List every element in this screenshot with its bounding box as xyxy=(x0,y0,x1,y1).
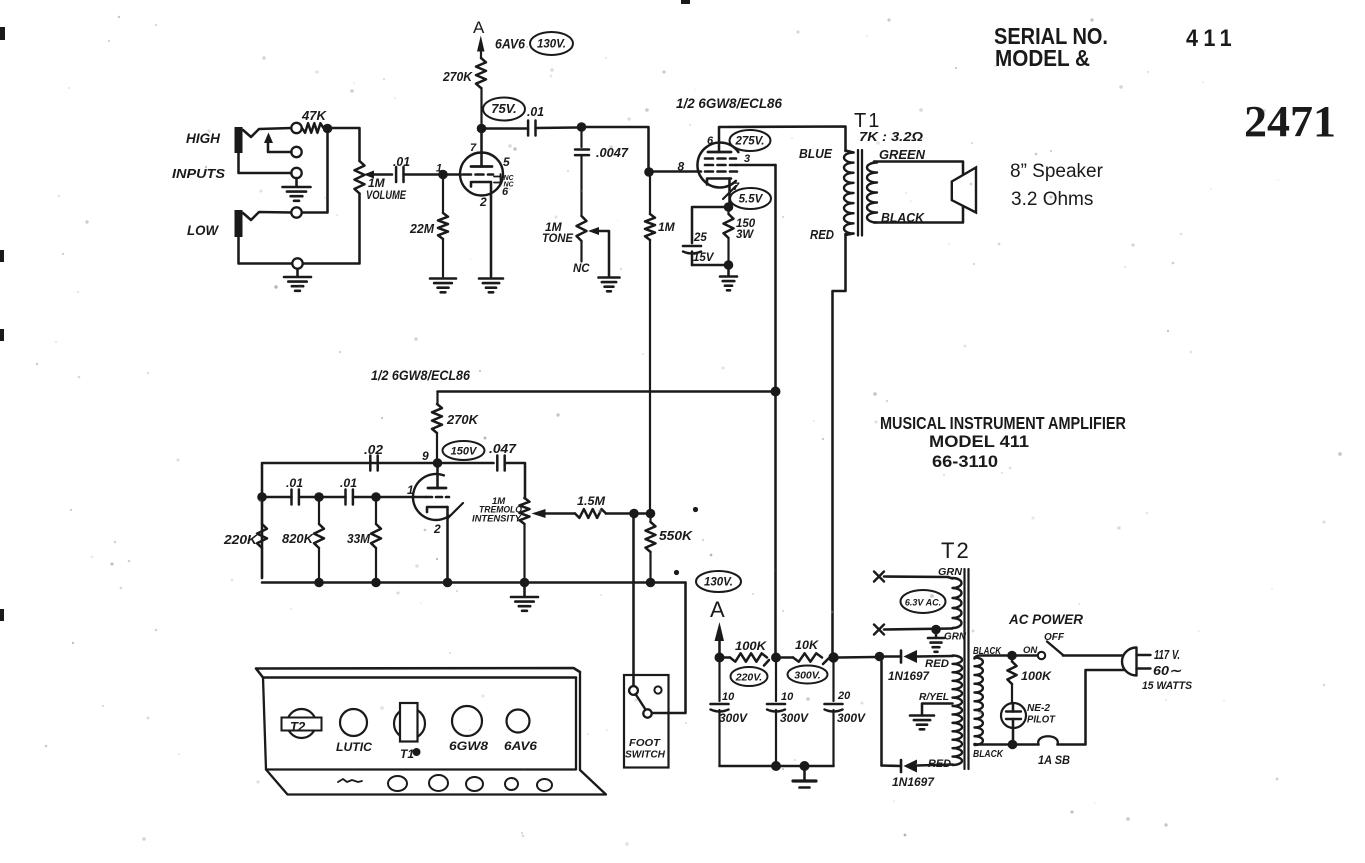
svg-text:BLACK: BLACK xyxy=(973,645,1002,657)
node rail 550K xyxy=(646,578,656,588)
wire b-grid xyxy=(353,496,372,499)
potentiometer 1M TREMOLO INTENSITY xyxy=(523,497,526,500)
wire B+ to rectifier xyxy=(839,656,876,659)
V1 cathode xyxy=(471,182,491,187)
svg-text:BLUE: BLUE xyxy=(799,147,833,161)
svg-text:300V: 300V xyxy=(837,713,866,725)
V3 grid dashes xyxy=(426,496,432,499)
svg-text:FOOT: FOOT xyxy=(629,738,661,749)
volume wiper arrow xyxy=(364,171,375,179)
node PS rail b xyxy=(771,761,781,771)
svg-text:6: 6 xyxy=(707,135,714,147)
ground (PS rail) xyxy=(803,770,806,780)
svg-text:10K: 10K xyxy=(795,638,819,652)
pin 6 NC stub xyxy=(494,182,501,184)
potentiometer 1M VOLUME xyxy=(355,161,365,194)
chassis face xyxy=(263,672,580,770)
svg-text:10: 10 xyxy=(722,691,735,703)
potentiometer 1M TONE xyxy=(577,216,587,241)
X mark bottom xyxy=(874,625,884,635)
svg-text:GRN: GRN xyxy=(938,566,962,578)
svg-text:SWITCH: SWITCH xyxy=(625,750,666,761)
svg-text:.047: .047 xyxy=(489,442,517,456)
svg-text:A: A xyxy=(473,18,485,37)
svg-text:3.2 Ohms: 3.2 Ohms xyxy=(1011,189,1093,210)
svg-text:MODEL 411: MODEL 411 xyxy=(929,432,1029,451)
resistor 220K xyxy=(261,497,263,524)
ground (22M) xyxy=(430,277,456,280)
wire junction-junction xyxy=(638,512,646,515)
X mark top xyxy=(874,572,884,582)
wire footswitch return xyxy=(652,583,686,714)
wire .02 rail xyxy=(262,463,433,578)
T2 core xyxy=(963,569,965,769)
svg-text:5.5V: 5.5V xyxy=(739,194,764,206)
chassis socket LUTIC xyxy=(340,709,367,736)
svg-text:5: 5 xyxy=(503,155,510,169)
input jack J1 HIGH (body) xyxy=(235,127,243,153)
node: 550K top xyxy=(646,509,656,519)
V3 plate xyxy=(428,487,446,490)
tone pot NC lead xyxy=(580,241,582,262)
svg-text:300V: 300V xyxy=(780,713,809,725)
svg-text:ON: ON xyxy=(1023,645,1038,656)
T2 HV winding xyxy=(953,656,963,766)
V1 plate xyxy=(471,165,492,168)
arrow node A (supply) xyxy=(715,622,725,641)
node: B+ 300V xyxy=(828,652,838,662)
svg-text:6.3V AC.: 6.3V AC. xyxy=(905,598,941,608)
resistor 100K (supply) xyxy=(724,656,730,659)
node: RC c xyxy=(371,492,381,502)
diode CR1 1N1697 xyxy=(904,650,918,663)
svg-text:AC POWER: AC POWER xyxy=(1008,612,1083,627)
ground (tremolo rail) xyxy=(523,587,526,596)
transformer T1 secondary xyxy=(867,163,877,223)
wire primary top xyxy=(975,656,1008,659)
capacitor .01 b xyxy=(344,490,347,505)
resistor 270K (V1 plate load) xyxy=(480,88,482,124)
svg-text:T1: T1 xyxy=(854,110,881,132)
oval 130V (V1 plate supply) xyxy=(530,32,573,55)
svg-text:LUTIC: LUTIC xyxy=(336,742,373,754)
wire osc B+ rail xyxy=(438,390,772,393)
oval 75V (V1 plate) xyxy=(483,98,525,121)
V3 arc hook xyxy=(448,503,463,518)
transformer T1 primary xyxy=(844,153,854,234)
oval 130V (supply) xyxy=(696,571,741,592)
svg-text:7: 7 xyxy=(470,142,477,154)
svg-text:VOLUME: VOLUME xyxy=(366,188,407,202)
resistor 47K xyxy=(302,123,324,133)
T1 primary bottom (RED) to B+ xyxy=(846,234,854,236)
speaker cone xyxy=(952,168,976,213)
plug prong 1 xyxy=(1137,654,1151,656)
svg-text:.01: .01 xyxy=(527,105,544,119)
resistor 10K (supply) xyxy=(781,656,793,659)
wire V2 screen to B+ line xyxy=(736,164,776,167)
ground (heater CT) xyxy=(935,633,938,637)
fuse 1A SB xyxy=(1038,736,1058,744)
footswitch fixed contact xyxy=(629,686,638,695)
capacitor .0047 xyxy=(580,131,582,147)
svg-text:GRN: GRN xyxy=(944,631,966,643)
chassis socket 6GW8 xyxy=(452,706,482,736)
wire rectifier joint xyxy=(880,661,883,766)
tube V1 6AV6 envelope xyxy=(460,153,503,196)
svg-text:T1: T1 xyxy=(400,747,414,761)
ground (input LOW sleeve) xyxy=(284,276,311,279)
svg-text:411: 411 xyxy=(1186,25,1237,52)
svg-text:3: 3 xyxy=(744,153,750,165)
speck near 550K xyxy=(693,507,698,512)
capacitor 10/300V a xyxy=(718,662,720,701)
resistor 33M xyxy=(375,502,377,525)
svg-text:1N1697: 1N1697 xyxy=(888,671,930,683)
svg-text:INTENSITY: INTENSITY xyxy=(472,514,523,525)
scan marks left edge xyxy=(0,27,5,40)
svg-text:33M: 33M xyxy=(347,532,371,546)
svg-text:100K: 100K xyxy=(1021,669,1052,683)
svg-text:1M: 1M xyxy=(658,220,676,234)
svg-text:75V.: 75V. xyxy=(491,101,517,116)
footswitch arm xyxy=(636,694,646,710)
node: B+ 130V xyxy=(715,653,725,663)
wire 47K-node to volume pot top xyxy=(331,128,360,161)
node: tone junction xyxy=(577,122,587,132)
capacitor .01 (input coupling) xyxy=(395,167,398,182)
node rail c xyxy=(371,578,381,588)
capacitor .01 a xyxy=(267,496,292,499)
svg-text:LOW: LOW xyxy=(187,223,219,238)
jack J1 shorting arrow xyxy=(264,133,273,144)
jack J2 tip contact xyxy=(291,207,301,217)
wire junction down to footswitch xyxy=(632,518,635,686)
chassis scribble xyxy=(338,779,362,782)
arrow to node A (top) xyxy=(477,36,485,52)
capacitor 25/15V (cathode bypass) xyxy=(692,207,724,243)
wire cap to grid node xyxy=(404,173,439,176)
svg-text:.01: .01 xyxy=(393,155,410,169)
svg-text:1: 1 xyxy=(407,483,414,497)
svg-text:270K: 270K xyxy=(442,69,473,84)
chassis T1 transformer xyxy=(394,708,425,739)
svg-text:2: 2 xyxy=(433,522,441,536)
capacitor 10/300V b xyxy=(775,663,777,702)
svg-text:T2: T2 xyxy=(290,719,306,734)
svg-text:MODEL &: MODEL & xyxy=(995,45,1090,71)
capacitor .02 xyxy=(369,456,372,471)
tube V2 pentode envelope xyxy=(697,143,738,188)
svg-text:6AV6: 6AV6 xyxy=(495,37,525,52)
svg-text:550K: 550K xyxy=(659,528,694,543)
footswitch box xyxy=(624,675,669,768)
svg-text:117 V.: 117 V. xyxy=(1154,648,1180,662)
pilot lamp NE-2 xyxy=(1001,703,1026,728)
svg-text:1/2 6GW8/ECL86: 1/2 6GW8/ECL86 xyxy=(371,368,470,383)
svg-text:25: 25 xyxy=(693,232,707,244)
chassis socket 6AV6 xyxy=(507,710,530,733)
wire heater bottom xyxy=(884,629,953,630)
wire plug to fuse xyxy=(1058,670,1125,745)
ground (V1 cathode) xyxy=(479,277,503,280)
V2 grid3 dashes xyxy=(705,157,713,160)
resistor 550K xyxy=(649,518,651,522)
oval 150V (osc plate) xyxy=(443,441,485,460)
T2 primary winding xyxy=(975,657,983,745)
node rail pot xyxy=(520,578,530,588)
svg-text:15V: 15V xyxy=(693,252,715,264)
scan speckle xyxy=(866,35,868,37)
svg-text:22M: 22M xyxy=(409,221,435,236)
resistor 270K (osc plate load) xyxy=(436,392,438,405)
node: B+ 220V xyxy=(771,653,781,663)
svg-text:8” Speaker: 8” Speaker xyxy=(1010,161,1104,182)
wire to switch xyxy=(1017,654,1038,657)
tremolo wiper arrow xyxy=(532,509,546,518)
tube V3 osc envelope xyxy=(413,474,449,520)
svg-text:OFF: OFF xyxy=(1044,632,1065,643)
svg-text:220K: 220K xyxy=(223,533,258,547)
wire V2 plate to T1 xyxy=(719,127,846,152)
svg-text:T2: T2 xyxy=(941,538,971,563)
chassis T2 transformer xyxy=(287,709,316,738)
svg-text:A: A xyxy=(710,597,725,622)
svg-text:47K: 47K xyxy=(301,108,328,123)
svg-text:TONE: TONE xyxy=(542,231,574,245)
svg-text:8: 8 xyxy=(678,160,685,174)
svg-text:BLACK: BLACK xyxy=(973,748,1004,760)
node PS rail gnd xyxy=(800,761,810,771)
svg-text:.01: .01 xyxy=(340,476,357,490)
ground (V2 cathode) xyxy=(727,269,730,276)
svg-text:RED: RED xyxy=(925,658,949,670)
AC plug xyxy=(1122,648,1137,676)
svg-text:60∼: 60∼ xyxy=(1153,663,1182,678)
resistor 820K xyxy=(318,502,320,525)
switch contact (ON) xyxy=(1038,652,1045,659)
plug prong 2 xyxy=(1137,667,1151,669)
node: V1 plate xyxy=(477,124,487,134)
svg-text:GREEN: GREEN xyxy=(879,148,926,162)
T2 HV center tap xyxy=(922,704,953,715)
svg-text:RED: RED xyxy=(810,228,834,242)
svg-text:300V: 300V xyxy=(719,713,748,725)
T2 heater winding xyxy=(953,578,962,628)
node: footswitch junction xyxy=(629,509,639,519)
oval 275V (V2 plate) xyxy=(730,130,771,151)
svg-text:15 WATTS: 15 WATTS xyxy=(1142,680,1193,692)
pin 5 NC stub xyxy=(494,176,501,178)
chassis flange holes xyxy=(388,776,407,791)
ground (HV center tap) xyxy=(910,714,934,717)
node: primary bottom xyxy=(1008,740,1018,750)
svg-text:1/2 6GW8/ECL86: 1/2 6GW8/ECL86 xyxy=(676,96,782,111)
resistor 1M (V2 grid leak upper) xyxy=(649,177,651,215)
wire switch to plug xyxy=(1063,654,1124,657)
svg-text:RED: RED xyxy=(928,758,951,770)
wire node down to LOW tip xyxy=(302,132,328,213)
capacitor .01 (coupling to V2) xyxy=(527,121,530,136)
V2 plate xyxy=(708,151,731,154)
jack J1 ring/shorting contact xyxy=(291,147,301,157)
wire top to grid corner xyxy=(586,127,649,167)
jack J2 sleeve contact xyxy=(292,258,302,268)
node: primary top / pilot xyxy=(1007,651,1017,661)
wire PS ground rail xyxy=(720,765,834,768)
node: 47K junction xyxy=(323,124,333,134)
wire T1 secondary to speaker xyxy=(874,162,963,223)
wire screen line down xyxy=(774,396,777,653)
V2 arc hook xyxy=(723,186,736,199)
svg-text:MUSICAL INSTRUMENT AMPLIFIER: MUSICAL INSTRUMENT AMPLIFIER xyxy=(880,413,1126,433)
svg-text:2: 2 xyxy=(479,195,487,209)
node 9: osc plate xyxy=(433,458,443,468)
svg-text:NC: NC xyxy=(504,182,515,189)
svg-text:2471: 2471 xyxy=(1244,97,1336,146)
svg-text:270K: 270K xyxy=(446,412,480,427)
wire 1.5M to junction xyxy=(606,512,630,515)
diode CR2 1N1697 xyxy=(904,760,918,773)
node: rectifier output xyxy=(875,652,885,662)
chassis flange xyxy=(266,770,606,795)
svg-text:1: 1 xyxy=(436,163,442,175)
svg-text:130V.: 130V. xyxy=(537,39,566,51)
svg-text:PILOT: PILOT xyxy=(1027,715,1056,726)
svg-text:220V.: 220V. xyxy=(735,672,763,684)
tone wiper arrow xyxy=(588,227,599,235)
svg-text:7K : 3.2Ω: 7K : 3.2Ω xyxy=(859,130,923,144)
svg-text:20: 20 xyxy=(837,690,851,702)
chassis top edge xyxy=(256,668,580,678)
wire primary bottom xyxy=(975,743,1009,746)
svg-text:66-3110: 66-3110 xyxy=(932,452,998,471)
svg-text:.01: .01 xyxy=(286,476,303,490)
wire heater top xyxy=(884,575,948,578)
ground (input HIGH sleeve) xyxy=(283,186,311,189)
oval 5.5V (V2 cathode) xyxy=(730,188,771,209)
jack J1 tip contact xyxy=(291,123,301,133)
oval 300V xyxy=(788,666,828,684)
node: cathode bottom xyxy=(724,260,734,270)
resistor 1.5M xyxy=(575,509,606,518)
wire HV top to diode xyxy=(917,655,953,658)
wire to V2 grid xyxy=(654,170,702,173)
svg-text:9: 9 xyxy=(422,449,429,463)
svg-text:820K: 820K xyxy=(282,532,314,546)
wire volume pot bottom to LOW sleeve xyxy=(303,194,360,264)
switch arm (OFF position) xyxy=(1047,642,1063,656)
svg-text:150V: 150V xyxy=(451,446,478,458)
svg-text:INPUTS: INPUTS xyxy=(172,167,226,181)
node: heater CT xyxy=(931,625,941,635)
svg-text:NE-2: NE-2 xyxy=(1027,703,1050,714)
node: screen line at osc B+ rail xyxy=(771,387,781,397)
jack J1 sleeve contact grounded xyxy=(291,168,301,178)
svg-text:1A SB: 1A SB xyxy=(1038,755,1070,767)
node: V1 grid xyxy=(438,170,448,180)
input jack J2 LOW (body) xyxy=(235,210,243,237)
wire B+ node to rectifier xyxy=(874,656,877,659)
node: RC b xyxy=(314,492,324,502)
node: V2 cathode junction xyxy=(724,202,734,212)
resistor 150 3W xyxy=(727,211,729,214)
resistor 100K (pilot) xyxy=(1011,660,1013,662)
svg-text:130V.: 130V. xyxy=(704,577,733,589)
wire c to osc grid xyxy=(381,496,427,499)
capacitor 20/300V c xyxy=(832,663,834,702)
svg-text:300V.: 300V. xyxy=(794,670,821,682)
node rail b xyxy=(314,578,324,588)
svg-text:6AV6: 6AV6 xyxy=(504,741,538,753)
wire a-b xyxy=(299,496,315,499)
footswitch moving contact xyxy=(643,709,651,717)
V2 cathode xyxy=(707,179,731,185)
svg-text:NC: NC xyxy=(573,263,590,275)
resistor 22M xyxy=(442,179,444,213)
node rail cathode xyxy=(443,578,453,588)
svg-text:R/YEL: R/YEL xyxy=(919,692,949,703)
svg-text:10: 10 xyxy=(781,691,794,703)
capacitor .047 xyxy=(442,462,494,465)
node: V2 grid (pin8) xyxy=(644,167,654,177)
ground (tone wiper) xyxy=(599,276,620,279)
V2 grid1 dashes xyxy=(705,170,713,173)
svg-text:1N1697: 1N1697 xyxy=(892,777,935,789)
svg-text:3W: 3W xyxy=(736,229,754,241)
svg-text:275V.: 275V. xyxy=(735,136,765,148)
V2 grid2 dashes xyxy=(705,164,713,167)
oval 6.3V AC xyxy=(901,590,946,613)
svg-text:1.5M: 1.5M xyxy=(577,494,606,508)
footswitch spare contact xyxy=(654,686,661,693)
svg-text:.02: .02 xyxy=(364,443,383,457)
svg-text:6GW8: 6GW8 xyxy=(449,741,489,753)
oval 220V xyxy=(731,667,768,686)
svg-text:100K: 100K xyxy=(735,639,767,653)
V3 cathode xyxy=(427,507,448,512)
wire osc ground rail xyxy=(262,581,686,584)
svg-text:HIGH: HIGH xyxy=(186,131,220,146)
V1 grid (dashed) xyxy=(448,173,462,176)
T1 core xyxy=(857,150,859,236)
node: RC a xyxy=(257,492,267,502)
